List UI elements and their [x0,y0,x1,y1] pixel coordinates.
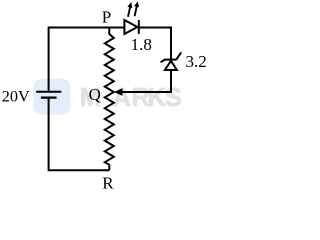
zener triangle [165,61,177,70]
zener left tick [161,60,165,63]
resistor PQR [105,28,114,171]
battery plate short [41,96,57,98]
wire left upper [48,27,50,91]
svg-text:P: P [102,8,111,27]
zener bar [164,59,176,61]
wiper arrowhead at Q [114,88,123,95]
battery plate long [36,91,61,93]
wire right lower and horizontal to arrow [122,70,172,92]
wire top right (LED cathode to corner) [140,27,172,29]
LED cathode bar [138,20,140,34]
svg-text:3.2: 3.2 [186,52,207,71]
wire bottom [48,169,110,171]
LED arrow 1 head [127,2,132,8]
LED triangle [124,20,137,34]
svg-text:Q: Q [89,85,101,104]
LED arrow 2 shaft [135,7,137,17]
LED arrow 2 head [134,1,139,7]
watermark logo [33,79,70,115]
svg-text:20V: 20V [2,87,30,105]
wire top [49,27,125,29]
zener right tick [176,52,181,59]
wire right upper (corner to zener) [170,27,172,60]
LED arrow 1 shaft [128,7,130,17]
wire left lower [48,99,50,170]
svg-text:1.8: 1.8 [131,35,152,54]
svg-text:R: R [102,173,114,192]
